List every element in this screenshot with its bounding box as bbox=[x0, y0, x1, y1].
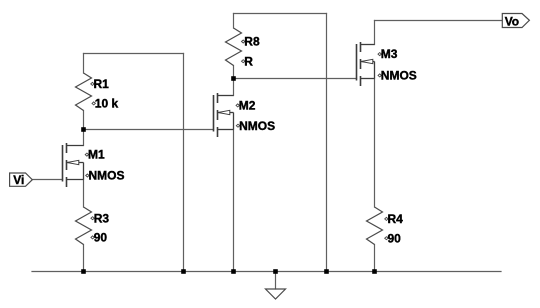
svg-text:R3: R3 bbox=[94, 211, 110, 225]
rail junction dot M2 source bbox=[231, 269, 236, 274]
node A junction dot bbox=[81, 127, 86, 132]
svg-text:R: R bbox=[244, 54, 253, 68]
wire R3 bottom lead bbox=[83, 245, 85, 272]
rail junction dot box2 bbox=[324, 269, 329, 274]
svg-text:M1: M1 bbox=[88, 148, 105, 162]
svg-text:Vo: Vo bbox=[505, 14, 519, 28]
svg-text:NMOS: NMOS bbox=[381, 69, 417, 83]
ground bbox=[266, 289, 286, 299]
transistor M1 bbox=[63, 143, 84, 187]
svg-text:90: 90 bbox=[388, 231, 402, 245]
wire M3 drain to Vo bbox=[375, 20, 503, 22]
wire Vi to M1 gate bbox=[32, 179, 62, 181]
svg-text:Vi: Vi bbox=[13, 173, 24, 187]
label M3 bbox=[378, 47, 417, 82]
port Vi bbox=[10, 173, 33, 187]
label R3 bbox=[91, 211, 109, 244]
resistor R4 bbox=[367, 207, 383, 245]
rail junction dot box1 bbox=[181, 269, 186, 274]
svg-text:90: 90 bbox=[94, 231, 108, 245]
transistor M2 bbox=[214, 93, 234, 137]
label M2 bbox=[236, 99, 275, 133]
wire M1 source to R3 bbox=[83, 180, 85, 208]
resistor R8 bbox=[226, 28, 242, 66]
wire top-middle box top bbox=[234, 13, 327, 15]
label R1 bbox=[91, 77, 119, 111]
node B junction dot bbox=[231, 76, 236, 81]
wire ground stem bbox=[275, 272, 277, 290]
svg-text:R1: R1 bbox=[94, 77, 110, 91]
svg-text:R4: R4 bbox=[388, 212, 404, 226]
wire M2 source down to rail bbox=[233, 130, 235, 272]
wire R8 bottom lead to node bbox=[233, 66, 235, 79]
wire M3 source to R4 bbox=[374, 79, 376, 208]
resistor R3 bbox=[76, 207, 92, 245]
label M1 bbox=[85, 148, 124, 183]
wire M2 drain up bbox=[233, 79, 235, 96]
wire M3 drain up bbox=[374, 21, 376, 45]
svg-text:M3: M3 bbox=[381, 47, 398, 61]
rail junction dot ground bbox=[273, 269, 278, 274]
port Vo bbox=[502, 14, 529, 29]
label R4 bbox=[385, 212, 403, 245]
wire R1 bottom lead to node bbox=[83, 111, 85, 130]
rail junction dot R4 bbox=[372, 269, 377, 274]
wire node B to M3 gate bbox=[234, 78, 357, 80]
svg-text:NMOS: NMOS bbox=[89, 169, 125, 183]
svg-text:NMOS: NMOS bbox=[239, 119, 275, 133]
rail junction dot R3 bbox=[81, 269, 86, 274]
svg-text:10 k: 10 k bbox=[95, 97, 119, 111]
svg-text:M2: M2 bbox=[239, 99, 256, 113]
wire middle box right vertical bbox=[326, 14, 328, 272]
wire R1 top lead bbox=[83, 54, 85, 74]
wire M1 drain up bbox=[83, 130, 85, 146]
label R8 bbox=[242, 35, 260, 69]
wire bottom rail bbox=[32, 271, 501, 273]
wire R8 top lead bbox=[233, 14, 235, 29]
wire node A to M2 gate bbox=[84, 129, 214, 131]
resistor R1 bbox=[76, 73, 92, 111]
wire R4 bottom lead bbox=[374, 245, 376, 272]
wire top-left box top bbox=[84, 53, 184, 55]
wire top-left box right vertical bbox=[183, 54, 185, 272]
transistor M3 bbox=[357, 42, 375, 86]
svg-text:R8: R8 bbox=[244, 35, 260, 49]
